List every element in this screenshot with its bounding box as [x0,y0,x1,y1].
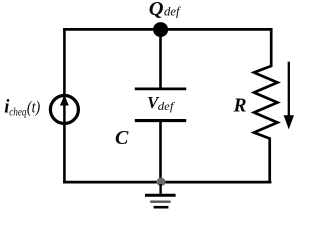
resistor R zigzag [254,28,278,183]
svg-text:Qdef: Qdef [149,0,182,20]
wire bottom [63,181,271,184]
wire top [63,28,272,31]
node ground junction [156,178,165,186]
svg-text:R: R [233,95,247,116]
node Q (top junction) [153,22,168,37]
svg-text:C: C [115,127,129,149]
current source I1 [50,95,78,124]
ground [145,184,176,207]
wire left [63,28,66,183]
wire capacitor top lead [159,30,162,89]
wire capacitor bottom lead [159,121,162,182]
capacitor C [135,89,186,121]
current direction arrow [284,62,294,130]
